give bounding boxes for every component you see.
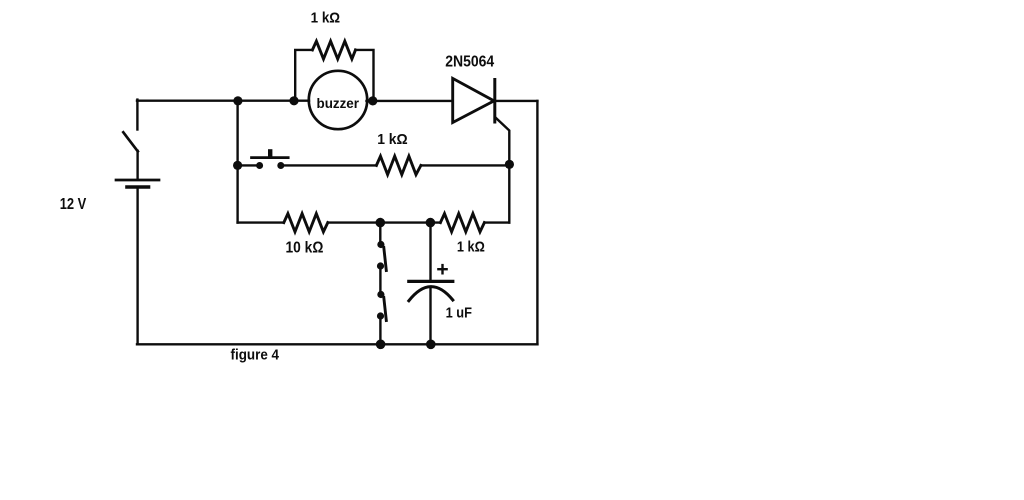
svg-text:1 kΩ: 1 kΩ [311,9,341,26]
svg-text:1 kΩ: 1 kΩ [457,239,485,256]
svg-text:figure 4: figure 4 [231,347,280,364]
svg-text:2N5064: 2N5064 [445,53,494,70]
svg-text:1 uF: 1 uF [446,304,472,321]
svg-text:12 V: 12 V [60,196,87,213]
svg-text:10 kΩ: 10 kΩ [286,239,324,256]
svg-text:1 kΩ: 1 kΩ [377,131,408,148]
svg-text:buzzer: buzzer [317,95,360,111]
